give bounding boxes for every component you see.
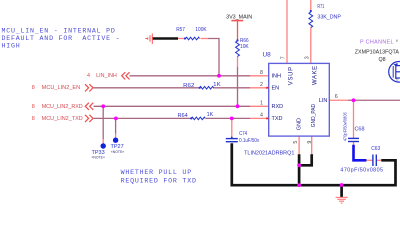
svg-text:33K_DNP: 33K_DNP — [317, 15, 341, 21]
svg-text:2: 2 — [260, 82, 263, 88]
svg-text:1K: 1K — [207, 112, 214, 118]
svg-text:HIGH: HIGH — [2, 43, 21, 50]
svg-text:7: 7 — [280, 56, 286, 59]
svg-text:1: 1 — [260, 100, 263, 106]
svg-text:3V3_MAIN: 3V3_MAIN — [226, 14, 252, 20]
svg-text:REQUIRED FOR TXD: REQUIRED FOR TXD — [121, 178, 197, 185]
svg-text:8: 8 — [32, 116, 35, 122]
svg-text:C68: C68 — [355, 126, 365, 132]
svg-text:8: 8 — [260, 70, 263, 76]
svg-text:LIN: LIN — [319, 98, 328, 104]
svg-text:10K: 10K — [240, 44, 249, 50]
svg-text:5: 5 — [293, 141, 299, 144]
svg-text:TXD: TXD — [272, 116, 283, 122]
svg-text:GND_PAD: GND_PAD — [311, 104, 317, 127]
svg-text:«NOTE»: «NOTE» — [111, 149, 124, 154]
svg-text:6: 6 — [335, 94, 338, 100]
svg-text:VSUP: VSUP — [288, 67, 294, 85]
svg-text:LIN_INH: LIN_INH — [96, 73, 117, 79]
svg-text:INH: INH — [272, 73, 282, 79]
svg-text:R62: R62 — [183, 83, 195, 89]
svg-text:RXD: RXD — [272, 104, 284, 110]
svg-text:U8: U8 — [263, 52, 272, 59]
svg-text:8: 8 — [32, 104, 35, 110]
svg-text:MCU_LIN_EN - INTERNAL PD: MCU_LIN_EN - INTERNAL PD — [2, 28, 116, 35]
svg-text:0.1uF/50v: 0.1uF/50v — [239, 138, 259, 144]
svg-text:470pF/50v0805: 470pF/50v0805 — [340, 168, 383, 174]
svg-text:GND: GND — [296, 118, 302, 130]
svg-text:e: e — [396, 38, 399, 43]
svg-text:Q8: Q8 — [379, 57, 386, 63]
svg-text:WAKE: WAKE — [312, 66, 318, 85]
svg-text:TLIN2021ADRBRQ1: TLIN2021ADRBRQ1 — [244, 150, 294, 156]
svg-text:ZXMP10A13FQTA: ZXMP10A13FQTA — [355, 50, 400, 56]
svg-text:WHETHER PULL UP: WHETHER PULL UP — [121, 169, 192, 176]
svg-text:R71: R71 — [317, 4, 324, 10]
svg-text:3: 3 — [304, 56, 310, 59]
svg-text:MCU_LIN2_EN: MCU_LIN2_EN — [42, 85, 81, 91]
svg-text:C74: C74 — [239, 131, 247, 137]
svg-text:«NOTE»: «NOTE» — [92, 155, 105, 160]
svg-text:R57: R57 — [176, 27, 185, 33]
svg-text:DEFAULT AND FOR ACTIVE -: DEFAULT AND FOR ACTIVE - — [2, 35, 121, 42]
svg-text:P CHANNEL: P CHANNEL — [360, 40, 394, 46]
svg-text:MCU_LIN2_RXD: MCU_LIN2_RXD — [42, 104, 83, 110]
svg-text:R64: R64 — [178, 113, 189, 119]
svg-text:9: 9 — [307, 141, 313, 144]
svg-text:100K: 100K — [195, 27, 207, 33]
svg-text:470pF/50v/0805: 470pF/50v/0805 — [343, 112, 348, 141]
svg-text:MCU_LIN2_TXD: MCU_LIN2_TXD — [42, 116, 83, 122]
svg-text:8: 8 — [32, 85, 35, 91]
svg-text:EN: EN — [272, 85, 280, 91]
svg-text:C63: C63 — [371, 146, 380, 152]
svg-text:4: 4 — [260, 112, 263, 118]
svg-text:4: 4 — [87, 73, 90, 79]
svg-text:1K: 1K — [213, 82, 221, 88]
